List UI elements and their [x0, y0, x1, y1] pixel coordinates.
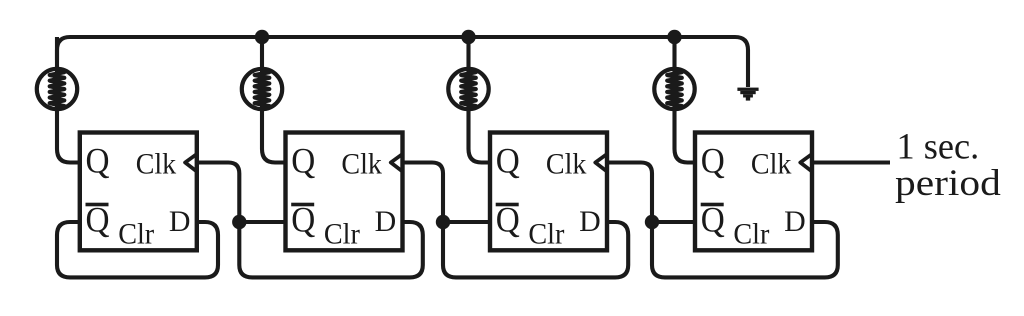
svg-text:period: period — [895, 163, 1001, 204]
svg-text:Clk: Clk — [136, 147, 177, 180]
svg-text:Clk: Clk — [341, 147, 382, 180]
svg-text:1 sec.: 1 sec. — [897, 126, 980, 167]
lamp L4 filament coil — [667, 70, 682, 108]
D flip-flop U2 body — [286, 133, 403, 251]
svg-text:D: D — [169, 205, 191, 238]
svg-text:Clr: Clr — [528, 217, 564, 250]
wire: lamp L3 lead from rail to Q of U3 — [469, 37, 493, 163]
svg-text:Q: Q — [86, 141, 110, 181]
wire: external clock input to Clk of U4 — [811, 160, 890, 164]
svg-text:Clk: Clk — [546, 147, 587, 180]
U3 clock edge wedge at Clk pin — [595, 154, 607, 172]
svg-text:Q: Q — [86, 199, 110, 239]
junction node at Qbar/D net of U2 — [232, 215, 246, 229]
lamp L1 filament coil — [50, 70, 65, 108]
svg-text:Q: Q — [291, 199, 315, 239]
lamp L1 bulb outline — [37, 69, 77, 109]
svg-text:Q: Q — [496, 141, 520, 181]
junction node on rail above lamp L2 — [255, 30, 269, 44]
wire: U4 D-to-Qbar feedback loop — [652, 222, 838, 277]
svg-text:Q: Q — [496, 199, 520, 239]
U2 clock edge wedge at Clk pin — [391, 154, 403, 172]
svg-text:Clr: Clr — [118, 217, 154, 250]
lamp L2 filament coil — [255, 70, 270, 108]
wire: Clk of U1 from Qbar node of U2 — [196, 163, 240, 225]
junction node on rail above lamp L4 — [667, 30, 681, 44]
wire: lamp L1 lead from rail to Q of U1 — [57, 37, 82, 163]
junction node on rail above lamp L3 — [461, 30, 475, 44]
wire: lamp L2 lead from rail to Q of U2 — [262, 37, 288, 163]
D flip-flop U1 body — [80, 133, 197, 251]
svg-text:Q: Q — [701, 199, 725, 239]
junction node at Qbar/D net of U4 — [645, 215, 659, 229]
wire: U1 D-to-Qbar feedback loop — [57, 222, 218, 277]
D flip-flop U3 body — [490, 133, 607, 251]
svg-text:Clr: Clr — [733, 217, 769, 250]
svg-text:D: D — [784, 205, 806, 238]
ground symbol — [737, 88, 758, 101]
U4 clock edge wedge at Clk pin — [800, 154, 812, 172]
U4 label Qbar overline — [701, 203, 724, 207]
lamp L4 bulb outline — [654, 69, 694, 109]
U2 label Qbar overline — [291, 203, 314, 207]
wire: V+ top rail — [57, 37, 748, 87]
svg-text:Q: Q — [701, 141, 725, 181]
lamp L3 bulb outline — [448, 69, 488, 109]
wire: U2 D-to-Qbar feedback loop — [239, 222, 422, 277]
D flip-flop U4 body — [695, 133, 812, 251]
wire: Clk of U3 from Qbar node of U4 — [606, 163, 652, 225]
svg-text:Q: Q — [291, 141, 315, 181]
svg-text:D: D — [579, 205, 601, 238]
svg-text:D: D — [375, 205, 397, 238]
wire: lamp L4 lead from rail to Q of U4 — [675, 37, 698, 163]
U1 clock edge wedge at Clk pin — [185, 154, 197, 172]
lamp L3 filament coil — [461, 70, 476, 108]
junction node at Qbar/D net of U3 — [436, 215, 450, 229]
wire: Clk of U2 from Qbar node of U3 — [402, 163, 444, 225]
U1 label Qbar overline — [86, 203, 109, 207]
U3 label Qbar overline — [496, 203, 519, 207]
wire: U3 D-to-Qbar feedback loop — [443, 222, 628, 277]
lamp L2 bulb outline — [242, 69, 282, 109]
svg-text:Clr: Clr — [324, 217, 360, 250]
svg-text:Clk: Clk — [751, 147, 792, 180]
